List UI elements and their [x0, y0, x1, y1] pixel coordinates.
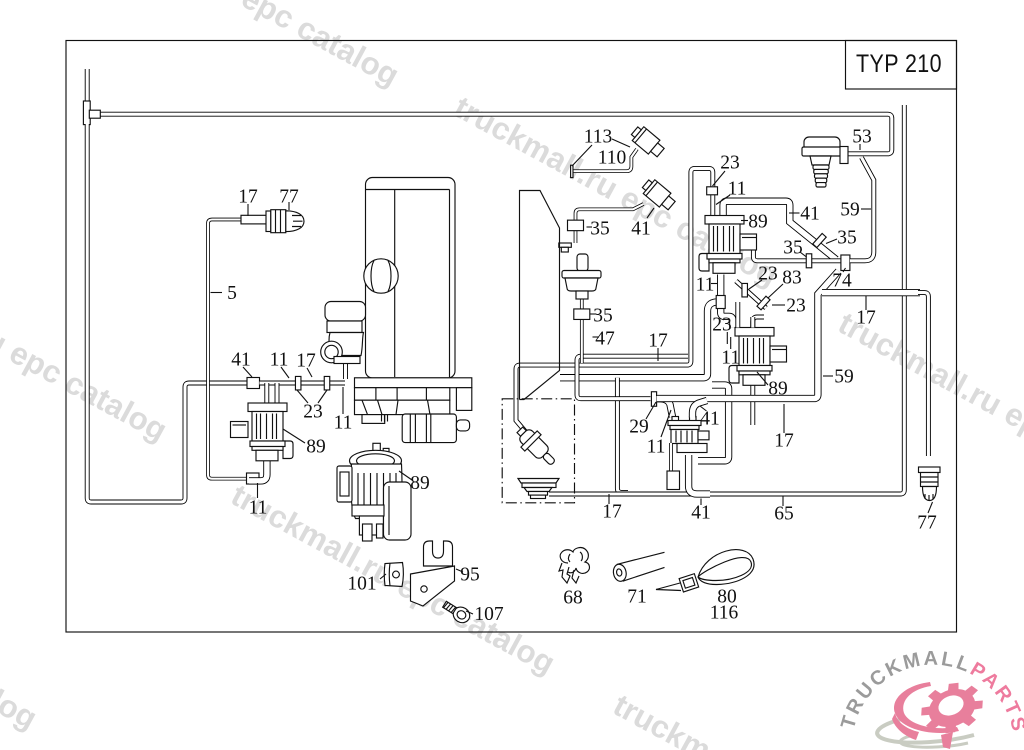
- svg-text:41: 41: [231, 350, 251, 371]
- wire canister right elbow 41: [693, 401, 708, 418]
- leader line 14: [456, 569, 463, 572]
- clamp 68: [560, 548, 589, 574]
- junction T-block node 74: [841, 255, 850, 271]
- leader line 48: [928, 502, 933, 513]
- wire pipe 29 route (to canister left port): [577, 356, 688, 399]
- leader line 36: [768, 284, 783, 298]
- svg-text:101: 101: [347, 574, 376, 595]
- svg-text:11: 11: [270, 350, 289, 371]
- leader line 33: [826, 239, 837, 244]
- svg-text:TYP 210: TYP 210: [856, 50, 942, 78]
- check valve in phantom box: [512, 422, 561, 471]
- firewall panel outline: [520, 191, 560, 400]
- clamp collar 35 diagonal on pipe 41: [813, 233, 826, 247]
- engine left water elbow: [325, 302, 366, 322]
- leader line 3: [211, 292, 223, 294]
- canister valve node 29/11: [672, 417, 679, 422]
- leader line 18: [587, 226, 593, 228]
- svg-text:35: 35: [837, 228, 857, 249]
- sleeve fitting pipe 17/77: [241, 215, 267, 224]
- wire route valve U1 left-stub to pipe 17 and dash box: [516, 168, 713, 433]
- svg-text:35: 35: [783, 238, 803, 259]
- leader line 32: [800, 252, 807, 257]
- leader line 39: [726, 332, 728, 344]
- wire riser to connector 77: [918, 293, 928, 456]
- leader line 23: [646, 402, 656, 419]
- clamp collar 23 b: [324, 376, 330, 390]
- leader line 5: [281, 367, 289, 378]
- outer border frame: [66, 41, 957, 633]
- leader line 26: [713, 171, 726, 186]
- wire pipe run to engine port (nodes 23): [260, 381, 346, 386]
- engine base and starter: [355, 378, 472, 388]
- svg-text:11: 11: [721, 348, 740, 369]
- vacuum pod 47: [577, 254, 588, 271]
- vacuum pump 89: [373, 443, 380, 460]
- wire valve V2 right stub corner: [753, 317, 764, 328]
- wire valve V2 top stubs: [735, 302, 740, 328]
- svg-text:11: 11: [696, 275, 715, 296]
- valve 89 V2 (lower right): [735, 328, 774, 337]
- svg-text:89: 89: [306, 437, 326, 458]
- leader line 46: [700, 499, 702, 506]
- clip 101: [384, 563, 403, 587]
- svg-text:89: 89: [748, 212, 768, 233]
- leader line 30: [859, 144, 861, 150]
- svg-text:89: 89: [410, 473, 430, 494]
- leader line 47: [782, 496, 784, 506]
- svg-text:23: 23: [758, 264, 778, 285]
- leader line 2: [288, 202, 290, 210]
- svg-text:59: 59: [834, 367, 854, 388]
- svg-text:83: 83: [782, 268, 802, 289]
- svg-text:77: 77: [279, 187, 299, 208]
- TYP 210 title box: [846, 41, 957, 90]
- leader line 13: [380, 574, 386, 579]
- leader line 9: [342, 387, 344, 414]
- clamp collar 35 sensor pipe: [568, 220, 584, 231]
- leader line 4: [243, 367, 252, 377]
- leader line 28: [741, 220, 748, 222]
- leader line 20: [590, 313, 597, 315]
- wire pipe of sensor 41: [576, 204, 644, 243]
- leader line 37: [772, 304, 785, 306]
- svg-text:35: 35: [590, 219, 610, 240]
- wire elbow 11 below valve V1: [249, 458, 267, 481]
- wire pipe 17 right (to node 74 riser): [657, 271, 839, 399]
- leader line 43: [700, 406, 707, 411]
- leader line 24: [661, 410, 671, 437]
- connector 77 left: [266, 211, 271, 232]
- svg-text:11: 11: [334, 413, 353, 434]
- sleeve fitting on top pipe: [89, 110, 100, 118]
- clamp collar on valve U1 lower pipe: [716, 296, 725, 309]
- leader line 25: [608, 494, 610, 504]
- connector 77 right: [919, 467, 941, 473]
- svg-text:23: 23: [303, 402, 323, 423]
- svg-text:5: 5: [227, 283, 237, 304]
- svg-text:89: 89: [768, 379, 788, 400]
- leader line 38: [711, 283, 718, 285]
- wire pipe 59 from valve 53 down to node 74: [850, 158, 874, 261]
- svg-text:65: 65: [774, 504, 794, 525]
- wire valve U1 left stub: [710, 194, 715, 216]
- bracket 95: [424, 541, 453, 566]
- svg-text:17: 17: [648, 331, 668, 352]
- svg-text:107: 107: [474, 604, 504, 625]
- leader line 44: [823, 375, 833, 377]
- wire valve U1 right-stub route 41 (diagonal to node 74): [723, 201, 836, 259]
- svg-text:77: 77: [917, 513, 937, 534]
- clamp collar 23 a: [295, 376, 301, 390]
- leader line 35: [749, 280, 762, 289]
- sensor 41: [640, 177, 678, 213]
- wire valve V1 top stub a: [264, 383, 269, 403]
- valve 89 V1 (left): [248, 403, 287, 412]
- leader line 22: [657, 348, 659, 361]
- leader line 11: [257, 483, 259, 498]
- phantom dash-dot box: [502, 399, 574, 503]
- leader line 6: [307, 368, 312, 377]
- tube 71: [612, 563, 628, 582]
- junction T-block top-left: [83, 101, 90, 125]
- engine cylinder block: [366, 178, 456, 379]
- svg-text:23: 23: [712, 315, 732, 336]
- wire pipe 110 of sensor 113: [572, 149, 637, 171]
- svg-text:68: 68: [563, 588, 583, 609]
- leader line 10: [283, 429, 305, 443]
- wire left loop pipe (down, right, up to node 41): [87, 124, 247, 502]
- clamp collar 23 vertical: [742, 283, 748, 297]
- leader line 31: [861, 208, 871, 210]
- sensor 113: [629, 124, 667, 160]
- leader line 1: [247, 204, 249, 216]
- TRUCKMALLPARTS logo: [837, 648, 1024, 749]
- svg-text:113: 113: [584, 127, 613, 148]
- wire canister thin drain pipe: [669, 443, 673, 471]
- svg-text:11: 11: [728, 179, 747, 200]
- leader line 8: [318, 390, 327, 403]
- svg-text:116: 116: [710, 603, 739, 624]
- wire valve U1 lower stub pipe with collar: [721, 275, 733, 328]
- sleeve fitting pipe 5 end: [247, 473, 260, 484]
- leader line 7: [297, 390, 308, 403]
- leader line 45: [865, 296, 867, 310]
- valve 89 U1 (upper right): [705, 216, 744, 225]
- leader line 21: [593, 336, 600, 338]
- svg-text:35: 35: [593, 306, 613, 327]
- clamp collar 29: [651, 392, 656, 407]
- svg-text:59: 59: [840, 200, 860, 221]
- leader line 16: [612, 139, 630, 147]
- clamp collar on valve U1 left stub: [707, 187, 718, 195]
- leader line 42: [783, 404, 785, 433]
- leader line 29: [789, 212, 800, 214]
- clamp collar 35 on pipe 74: [806, 254, 812, 268]
- wire top horizontal pipe to valve 53: [95, 114, 892, 154]
- leader line 27: [716, 195, 730, 205]
- canister drain box: [667, 471, 680, 490]
- svg-text:95: 95: [460, 565, 480, 586]
- wire canister bottom elbow to pipe 65: [689, 455, 710, 494]
- clamp collar 35 pod pipe: [574, 309, 590, 320]
- leader line 40: [730, 337, 732, 349]
- svg-text:17: 17: [238, 187, 258, 208]
- svg-text:17: 17: [296, 351, 316, 372]
- svg-text:17: 17: [856, 308, 876, 329]
- svg-text:23: 23: [720, 153, 740, 174]
- leader line 41: [757, 372, 768, 385]
- cable tie 80/116: [698, 550, 754, 585]
- svg-text:110: 110: [598, 148, 627, 169]
- svg-text:11: 11: [647, 437, 666, 458]
- svg-text:41: 41: [800, 204, 820, 225]
- wire pipe 47 from vacuum pod: [580, 299, 584, 363]
- svg-text:74: 74: [832, 271, 852, 292]
- wire valve V2 bottom stub pipe: [750, 381, 755, 425]
- wire engine port stub: [343, 362, 348, 379]
- wire diagonal hose node 23/83: [736, 281, 766, 308]
- wire pipe 29 elbow into canister: [657, 399, 673, 417]
- wire pipe from valve U1 connector to node 74: [753, 250, 841, 261]
- clamp collar 83 diagonal: [757, 296, 770, 310]
- wire pipe 17 far right horizontal: [822, 289, 920, 296]
- vacuum valve 53: [804, 137, 840, 151]
- wire top-left vertical pipe: [85, 69, 90, 101]
- engine thermostat ball: [364, 259, 398, 293]
- foot bracket of sensor pipe: [559, 243, 572, 247]
- wire valve V1 top stub b: [275, 383, 280, 403]
- leader line 34: [843, 268, 846, 272]
- leader line 19: [647, 208, 654, 218]
- bolt 107: [441, 598, 473, 626]
- leader line 17: [572, 145, 592, 166]
- svg-text:41: 41: [700, 409, 720, 430]
- svg-text:71: 71: [627, 587, 647, 608]
- wire right mini-loop around valve V2: [698, 385, 729, 461]
- svg-text:17: 17: [774, 431, 794, 452]
- leader line 12: [399, 471, 412, 480]
- end bar of pipe 110: [571, 165, 573, 177]
- svg-text:53: 53: [852, 127, 872, 148]
- wire pipe 65 / flange pipe long run: [549, 105, 904, 494]
- wire pipe 5 (from connector 77 down and right): [208, 220, 247, 479]
- svg-text:17: 17: [602, 502, 622, 523]
- svg-text:41: 41: [691, 503, 711, 524]
- flange stack in phantom box: [518, 479, 559, 484]
- sleeve fitting node 41 left: [247, 378, 260, 389]
- leader line 15: [466, 611, 473, 614]
- svg-text:11: 11: [249, 498, 268, 519]
- svg-text:41: 41: [631, 219, 651, 240]
- wire pipe from collar junction down and left (node 17): [560, 302, 716, 378]
- svg-text:29: 29: [629, 417, 649, 438]
- svg-text:47: 47: [595, 329, 615, 350]
- svg-text:23: 23: [786, 296, 806, 317]
- wire tee branch down middle: [617, 378, 628, 493]
